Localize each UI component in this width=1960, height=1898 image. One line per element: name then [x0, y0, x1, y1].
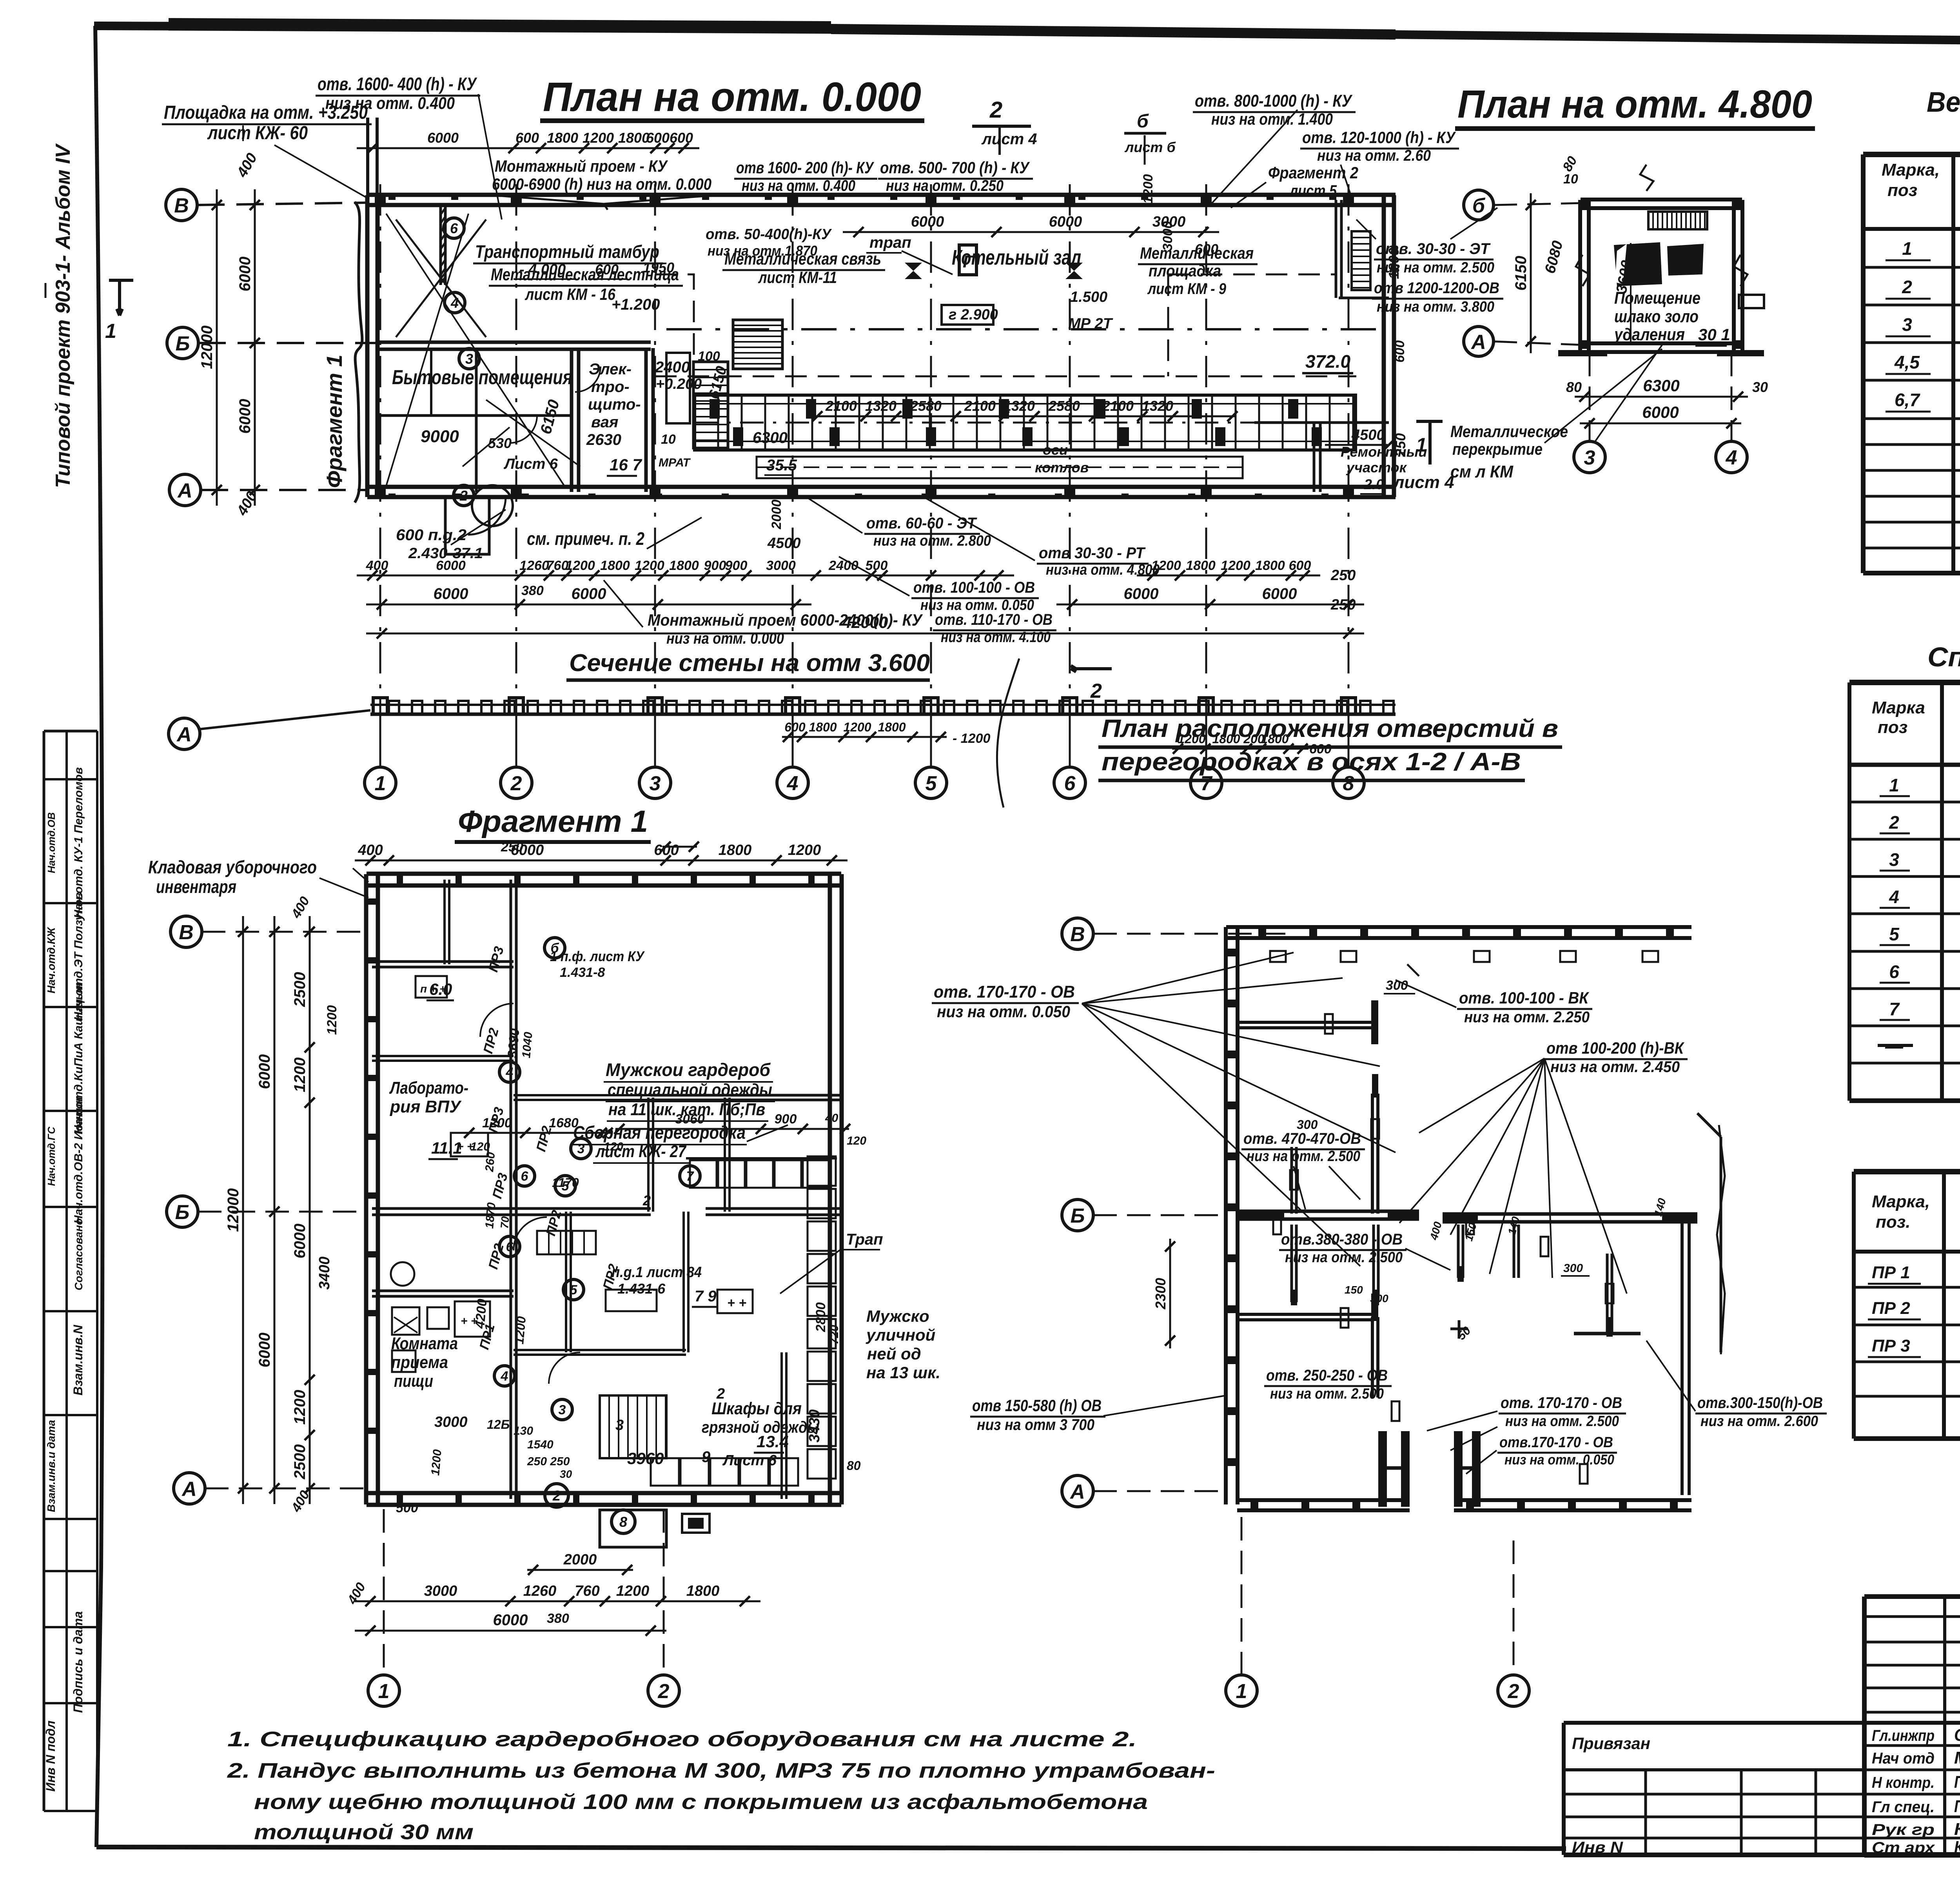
svg-text:1200: 1200: [325, 1005, 339, 1035]
openings plan break line right: [1717, 1125, 1725, 1354]
svg-text:5: 5: [570, 1283, 578, 1297]
svg-text:отв. 110-170 - ОВ: отв. 110-170 - ОВ: [935, 611, 1053, 628]
fragment bottom dim chains: [527, 1569, 633, 1571]
svg-text:1320: 1320: [865, 398, 897, 414]
svg-text:2500: 2500: [291, 1444, 309, 1480]
svg-text:600: 600: [784, 720, 806, 734]
svg-text:1.431-8: 1.431-8: [560, 965, 605, 980]
svg-text:2: 2: [989, 97, 1002, 123]
svg-text:4: 4: [1889, 887, 1899, 907]
svg-text:Нач.отд.КЖ: Нач.отд.КЖ: [45, 927, 57, 994]
axis circle A of wall section: [169, 718, 200, 749]
ladder right top: [1352, 231, 1370, 290]
bowtie link symbols: [905, 263, 922, 279]
svg-text:760: 760: [575, 1583, 599, 1599]
svg-text:1: 1: [378, 1680, 390, 1703]
svg-text:ней од: ней од: [867, 1345, 921, 1363]
svg-text:отв. 60-60 - ЭТ: отв. 60-60 - ЭТ: [866, 515, 977, 532]
svg-text:Типовой проект 903-1- Альбом: Типовой проект 903-1- Альбом IV: [52, 143, 74, 488]
wall panel joint marks top wall: [388, 194, 396, 200]
svg-text:удаления: удаления: [1613, 325, 1685, 344]
fragment axis target circles: [544, 938, 565, 958]
svg-text:1170: 1170: [552, 1176, 579, 1190]
svg-text:План на отм. 4.800: План на отм. 4.800: [1457, 82, 1812, 126]
right top fragment2 room: [1335, 200, 1338, 298]
svg-text:5: 5: [926, 772, 937, 795]
svg-text:поз.: поз.: [1876, 1212, 1910, 1232]
svg-text:1320: 1320: [1004, 398, 1035, 414]
svg-text:Б: Б: [175, 1201, 190, 1224]
svg-text:уличной: уличной: [866, 1326, 935, 1344]
svg-text:6000: 6000: [427, 130, 459, 146]
svg-text:рия ВПУ: рия ВПУ: [390, 1097, 462, 1116]
leader lines from bottom annotations: [808, 498, 862, 533]
svg-text:6: 6: [1064, 772, 1076, 795]
svg-text:Спецификация элементов запо: Спецификация элементов заполнения проемо…: [1927, 642, 1960, 672]
svg-text:2: 2: [642, 1192, 651, 1208]
svg-text:300: 300: [1370, 1292, 1388, 1305]
svg-text:Нач отд: Нач отд: [1872, 1750, 1935, 1767]
svg-text:лист КМ-11: лист КМ-11: [758, 268, 837, 287]
svg-text:План на отм. 0.000: План на отм. 0.000: [543, 74, 921, 120]
svg-text:низ на отм.1.870: низ на отм.1.870: [708, 243, 817, 259]
svg-text:г 2.900: г 2.900: [949, 307, 998, 323]
svg-text:900: 900: [725, 558, 748, 573]
svg-text:отв 1600- 200 (h)- КУ: отв 1600- 200 (h)- КУ: [736, 158, 875, 177]
svg-text:низ на отм 3 700: низ на отм 3 700: [977, 1416, 1094, 1433]
svg-text:1.500: 1.500: [1070, 289, 1107, 305]
svg-text:1 п.ф. лист КУ: 1 п.ф. лист КУ: [550, 948, 645, 964]
svg-text:4: 4: [787, 772, 799, 795]
svg-text:б: б: [1137, 111, 1149, 132]
svg-text:3: 3: [650, 772, 661, 795]
section strip small dim segments: [782, 736, 947, 738]
svg-text:Согласовано: Согласовано: [73, 1218, 85, 1290]
svg-text:400: 400: [358, 842, 383, 858]
openings plan axis circles: [1062, 918, 1093, 949]
svg-text:150: 150: [1345, 1284, 1363, 1296]
svg-text:специальной одежды: специальной одежды: [608, 1080, 772, 1100]
svg-text:12Б: 12Б: [487, 1417, 510, 1432]
stair strip 2: [693, 362, 728, 448]
svg-text:1800: 1800: [669, 558, 699, 573]
svg-text:ПР 1: ПР 1: [1872, 1263, 1910, 1282]
svg-text:Б: Б: [1071, 1205, 1085, 1227]
svg-text:720: 720: [828, 1325, 841, 1345]
svg-text:2800: 2800: [813, 1302, 828, 1332]
svg-text:приема: приема: [391, 1353, 448, 1372]
svg-text:пищи: пищи: [394, 1372, 433, 1391]
svg-text:6000: 6000: [1049, 214, 1082, 230]
svg-text:10: 10: [661, 432, 676, 447]
svg-text:3: 3: [1889, 849, 1899, 870]
svg-text:1200: 1200: [635, 558, 664, 573]
svg-text:6300: 6300: [1643, 376, 1679, 395]
svg-text:6000: 6000: [236, 399, 254, 434]
svg-text:1800: 1800: [809, 720, 837, 734]
title block left extension: [1564, 1721, 1864, 1725]
svg-text:низ на отм. 0.000: низ на отм. 0.000: [666, 630, 784, 647]
svg-text:Кузочкина: Кузочкина: [1954, 1838, 1960, 1857]
axis circles 1-8 below section: [379, 714, 381, 767]
svg-text:530: 530: [488, 435, 512, 451]
svg-text:ному щебню толщиной 100 мм: ному щебню толщиной 100 мм с покрытием и…: [254, 1790, 1148, 1814]
svg-text:низ на отм. 2.600: низ на отм. 2.600: [1700, 1413, 1818, 1430]
svg-text:Котельный зал: Котельный зал: [952, 246, 1081, 269]
svg-text:35.5: 35.5: [766, 457, 797, 474]
plan 4800 dim lines: [1530, 193, 1532, 353]
svg-text:на 13 шк.: на 13 шк.: [866, 1363, 940, 1382]
svg-text:500: 500: [866, 558, 888, 573]
svg-text:600: 600: [1392, 340, 1407, 363]
bottom dimension chains of main plan: [357, 575, 1014, 577]
wall panel joint marks bottom wall: [388, 494, 396, 499]
svg-text:ПР 2: ПР 2: [1872, 1299, 1910, 1318]
svg-text:низ на отм. 2.500: низ на отм. 2.500: [1285, 1249, 1403, 1266]
svg-text:отв 150-580 (h) ОВ: отв 150-580 (h) ОВ: [972, 1396, 1102, 1415]
svg-text:30: 30: [1752, 379, 1768, 395]
svg-text:1200: 1200: [482, 1116, 512, 1130]
svg-text:3000: 3000: [1160, 221, 1175, 251]
svg-text:500: 500: [396, 1501, 418, 1515]
svg-text:отв. 100-100 - ВК: отв. 100-100 - ВК: [1459, 989, 1590, 1007]
svg-text:2100: 2100: [825, 398, 857, 414]
svg-text:3060: 3060: [675, 1112, 705, 1127]
svg-text:лист КМ - 16: лист КМ - 16: [524, 285, 615, 303]
svg-text:260: 260: [483, 1152, 497, 1173]
svg-text:Нач.отд.ОВ-2 Ионкин: Нач.отд.ОВ-2 Ионкин: [72, 1097, 85, 1224]
svg-text:Мужскои гардероб: Мужскои гардероб: [606, 1060, 771, 1080]
svg-text:3400: 3400: [316, 1256, 333, 1290]
svg-text:16 7: 16 7: [610, 455, 642, 474]
svg-text:Инв N подл: Инв N подл: [44, 1720, 58, 1791]
openings plan stubs below B left room: [1290, 1225, 1293, 1302]
svg-text:250: 250: [1330, 567, 1356, 584]
svg-text:отв. 100-100 - ОВ: отв. 100-100 - ОВ: [913, 579, 1035, 596]
svg-text:В: В: [174, 194, 189, 217]
svg-text:котлов: котлов: [1035, 459, 1089, 475]
svg-text:70: 70: [498, 1216, 512, 1229]
svg-text:6000: 6000: [1642, 403, 1679, 421]
svg-text:низ на отм. 4.800: низ на отм. 4.800: [1046, 562, 1160, 578]
fragment lockers top right area: [690, 1160, 717, 1188]
axis vertical dash lines: [379, 184, 381, 768]
svg-text:600600: 600600: [646, 130, 693, 146]
r2900 boxed label: [942, 305, 993, 325]
svg-text:1200: 1200: [565, 558, 595, 573]
doors in partitions: [510, 416, 537, 443]
svg-text:3000: 3000: [434, 1414, 468, 1430]
svg-text:1. Спецификацию гардеробного: 1. Спецификацию гардеробного оборудовани…: [227, 1727, 1137, 1751]
svg-text:Площадка на отм. +3.250: Площадка на отм. +3.250: [164, 102, 368, 123]
svg-text:+1.200: +1.200: [612, 296, 660, 313]
svg-text:В: В: [1070, 923, 1085, 946]
svg-text:2.430-37.1: 2.430-37.1: [408, 545, 483, 562]
svg-text:А: А: [181, 1478, 197, 1501]
svg-text:низ на отм. 0.250: низ на отм. 0.250: [886, 177, 1004, 194]
svg-text:40: 40: [825, 1112, 838, 1125]
svg-text:МРАТ: МРАТ: [659, 456, 691, 469]
openings plan B-axis wall segments: [1237, 1210, 1419, 1213]
svg-text:Ст арх: Ст арх: [1872, 1839, 1935, 1856]
svg-text:3430: 3430: [806, 1409, 823, 1443]
svg-text:ПР 3: ПР 3: [1872, 1336, 1910, 1355]
interior partition vertical 2 electro room: [644, 348, 648, 492]
svg-text:12000: 12000: [198, 325, 216, 369]
svg-text:1540: 1540: [527, 1438, 554, 1451]
svg-text:1800: 1800: [1186, 558, 1216, 573]
plan 4800 axis circles: [1464, 190, 1494, 220]
svg-text:2: 2: [552, 1488, 561, 1504]
svg-text:300: 300: [1563, 1262, 1583, 1275]
svg-text:6000: 6000: [256, 1333, 273, 1368]
svg-text:380: 380: [547, 1611, 569, 1626]
tambour diagonal braces: [396, 220, 486, 337]
svg-text:лист б: лист б: [1124, 139, 1176, 155]
svg-text:отв. 30-30 - ЭТ: отв. 30-30 - ЭТ: [1376, 240, 1491, 258]
svg-text:11.1: 11.1: [431, 1139, 462, 1157]
boiler row band: [695, 395, 1356, 450]
svg-text:Погорельскии: Погорельскии: [1954, 1797, 1960, 1816]
svg-text:3960: 3960: [627, 1449, 664, 1468]
svg-text:низ на отм. 2.500: низ на отм. 2.500: [1377, 259, 1494, 276]
svg-text:80: 80: [847, 1459, 861, 1473]
svg-text:площадка: площадка: [1149, 261, 1221, 280]
svg-text:400: 400: [366, 558, 388, 573]
interior partition vertical 1: [570, 348, 573, 492]
svg-text:6000: 6000: [256, 1054, 273, 1089]
title block outer: [1864, 1594, 1960, 1599]
svg-text:1200: 1200: [1141, 174, 1156, 204]
svg-text:п.g.1 лист 84: п.g.1 лист 84: [612, 1264, 702, 1281]
svg-text:отв. 1600- 400 (h) - КУ: отв. 1600- 400 (h) - КУ: [318, 74, 477, 94]
svg-text:Транспортный тамбур: Транспортный тамбур: [475, 241, 659, 262]
duct dashed rect in hall: [757, 457, 1243, 478]
svg-text:Лист 6: Лист 6: [503, 456, 558, 472]
svg-text:1040: 1040: [520, 1031, 535, 1059]
svg-text:1800: 1800: [600, 558, 630, 573]
svg-text:900: 900: [704, 558, 726, 573]
fixtures in left rooms: [392, 1307, 419, 1335]
svg-text:Инв N: Инв N: [1572, 1839, 1623, 1856]
svg-text:10: 10: [1563, 172, 1578, 187]
svg-text:Монтажный проем 6000-2400(h)-: Монтажный проем 6000-2400(h)- КУ: [648, 611, 923, 629]
svg-text:Рук гр: Рук гр: [1872, 1821, 1935, 1838]
svg-text:Морунов: Морунов: [1954, 1748, 1960, 1767]
svg-text:низ на отм. 0.400: низ на отм. 0.400: [742, 177, 855, 194]
boiler dimension line: [813, 416, 1236, 417]
svg-text:9: 9: [702, 1448, 711, 1466]
right side remont area walls: [1313, 423, 1316, 492]
svg-text:7 9: 7 9: [695, 1288, 717, 1305]
svg-text:3: 3: [559, 1403, 566, 1417]
svg-text:1320: 1320: [1142, 398, 1173, 414]
svg-text:вая: вая: [591, 414, 618, 431]
svg-text:низ на отм. 2.250: низ на отм. 2.250: [1464, 1009, 1590, 1026]
svg-text:Б: Б: [176, 332, 190, 355]
svg-text:2100: 2100: [964, 398, 996, 414]
svg-text:- 1200: - 1200: [953, 731, 990, 746]
svg-text:Марка,: Марка,: [1882, 160, 1940, 180]
svg-text:2: 2: [510, 772, 522, 795]
fragment right top leaders: [353, 868, 368, 882]
svg-text:6: 6: [450, 220, 458, 236]
svg-text:Кладовая уборочного: Кладовая уборочного: [148, 857, 317, 877]
svg-text:трап: трап: [869, 234, 911, 251]
svg-text:Привязан: Привязан: [1572, 1734, 1650, 1753]
svg-text:1800: 1800: [618, 130, 650, 146]
svg-text:лист КМ - 9: лист КМ - 9: [1147, 280, 1226, 298]
svg-text:+ +: + +: [727, 1296, 746, 1310]
svg-text:Марка,: Марка,: [1872, 1192, 1930, 1211]
svg-text:380: 380: [521, 583, 544, 598]
svg-text:1200: 1200: [1221, 558, 1250, 573]
svg-text:6000: 6000: [434, 585, 468, 602]
svg-text:отв. 170-170 - ОВ: отв. 170-170 - ОВ: [1501, 1394, 1622, 1412]
svg-text:Шкафы для: Шкафы для: [711, 1399, 802, 1418]
svg-text:оси: оси: [1043, 442, 1068, 458]
column squares at axes: [375, 197, 386, 205]
svg-text:1800: 1800: [686, 1583, 720, 1599]
svg-text:Взам.инв.N: Взам.инв.N: [71, 1325, 85, 1395]
svg-text:4: 4: [450, 295, 459, 311]
svg-text:щито-: щито-: [588, 396, 641, 413]
stairs металлическая лестница: [733, 320, 782, 369]
electro room equipment: [666, 353, 690, 423]
svg-text:Н контр.: Н контр.: [1872, 1774, 1935, 1791]
vedomost proemov table: [1863, 152, 1960, 157]
openings plan top wall: [1226, 925, 1691, 929]
fragment axis circles: [171, 916, 202, 947]
interior axis target circles: [444, 218, 464, 238]
svg-text:2: 2: [1902, 277, 1912, 297]
svg-text:4,5: 4,5: [1894, 352, 1920, 372]
svg-text:низ на отм. 2.60: низ на отм. 2.60: [1317, 147, 1431, 164]
svg-text:250: 250: [1392, 433, 1408, 457]
svg-text:2000: 2000: [769, 499, 784, 530]
fragment interior walls: [510, 880, 512, 1212]
svg-text:МР 2Т: МР 2Т: [1068, 316, 1113, 332]
svg-text:Элек-: Элек-: [589, 361, 632, 378]
svg-text:6: 6: [1889, 962, 1899, 982]
svg-text:100: 100: [698, 349, 720, 364]
svg-text:1260: 1260: [519, 558, 549, 573]
svg-text:Гл.инжпр: Гл.инжпр: [1872, 1727, 1935, 1744]
page frame left edge: [95, 26, 103, 1847]
svg-text:1800: 1800: [878, 720, 906, 734]
svg-text:отв. 250-250 - ОВ: отв. 250-250 - ОВ: [1266, 1367, 1388, 1384]
svg-text:4: 4: [506, 1065, 514, 1080]
svg-text:отв 100-200 (h)-ВК: отв 100-200 (h)-ВК: [1546, 1039, 1685, 1057]
svg-text:30: 30: [560, 1468, 572, 1480]
svg-text:120: 120: [847, 1134, 866, 1147]
svg-text:80: 80: [1566, 379, 1582, 395]
svg-text:перекрытие: перекрытие: [1452, 440, 1543, 458]
svg-text:Марка: Марка: [1872, 698, 1925, 717]
svg-text:Нач.отд.ГС: Нач.отд.ГС: [45, 1126, 57, 1186]
svg-text:30 1: 30 1: [1698, 325, 1730, 344]
openings plan upper-left partition with tee: [1237, 1021, 1374, 1024]
svg-text:1950: 1950: [643, 259, 674, 276]
svg-text:4500: 4500: [1351, 427, 1385, 443]
svg-text:отв. 120-1000 (h) - КУ: отв. 120-1000 (h) - КУ: [1302, 128, 1456, 147]
svg-text:1.431-6: 1.431-6: [617, 1281, 666, 1297]
svg-text:6000: 6000: [1262, 585, 1297, 602]
svg-text:3000: 3000: [424, 1583, 457, 1599]
svg-text:отв. 800-1000 (h) - КУ: отв. 800-1000 (h) - КУ: [1195, 91, 1353, 111]
svg-text:Фрагмент 2: Фрагмент 2: [1268, 163, 1358, 182]
svg-text:2.0: 2.0: [1364, 476, 1384, 492]
bytovye entry porch: [445, 497, 489, 554]
page frame top edge: [94, 26, 1960, 46]
svg-text:лист 4: лист 4: [981, 131, 1037, 148]
dashed outline platform at +1.200 in hall: [655, 376, 1356, 377]
svg-text:Монтажный проем - КУ: Монтажный проем - КУ: [495, 157, 668, 175]
svg-text:Погорельский: Погорельский: [1954, 1773, 1960, 1792]
svg-text:2580: 2580: [1048, 398, 1080, 414]
svg-text:4500: 4500: [767, 535, 801, 552]
svg-text:Фрагмент 1: Фрагмент 1: [322, 355, 347, 488]
openings plan right partial wall: [1681, 1219, 1684, 1495]
svg-text:3: 3: [577, 1141, 585, 1156]
svg-text:Лист 6: Лист 6: [722, 1452, 777, 1469]
svg-text:Гл спец.: Гл спец.: [1872, 1798, 1935, 1816]
title block small grid upper left: [1864, 1615, 1960, 1618]
svg-text:300: 300: [1386, 978, 1408, 993]
fragment lockers row right wall: [808, 1156, 836, 1186]
svg-text:Лаборато-: Лаборато-: [389, 1078, 468, 1098]
svg-text:низ на отм. 3.800: низ на отм. 3.800: [1377, 299, 1494, 315]
42000 overall dim: [366, 633, 1364, 635]
svg-text:отв.300-150(h)-ОВ: отв.300-150(h)-ОВ: [1697, 1394, 1823, 1412]
svg-text:см л КМ: см л КМ: [1450, 462, 1514, 481]
svg-text:2630: 2630: [586, 431, 621, 448]
svg-text:1870: 1870: [483, 1202, 498, 1229]
svg-text:6000: 6000: [911, 214, 944, 230]
svg-text:1200: 1200: [512, 1316, 528, 1345]
svg-text:Сечение стены на отм 3.600: Сечение стены на отм 3.600: [569, 650, 930, 677]
svg-text:600: 600: [1195, 241, 1218, 257]
svg-text:Ремонтныи: Ремонтныи: [1341, 444, 1427, 460]
svg-text:План расположения отверстий в: План расположения отверстий в: [1102, 714, 1558, 742]
svg-text:1200: 1200: [583, 130, 614, 146]
svg-text:низ на отм. 2.500: низ на отм. 2.500: [1247, 1148, 1360, 1165]
top dimension chain far left: [357, 147, 699, 149]
svg-text:низ на отм. 2.500: низ на отм. 2.500: [1505, 1413, 1619, 1430]
specification peremychek table: [1854, 1169, 1960, 1174]
plan 4800 hatched duct on top wall: [1648, 212, 1707, 229]
svg-text:1800: 1800: [547, 130, 578, 146]
extra partitions bytovye: [475, 348, 478, 492]
svg-text:Комната: Комната: [391, 1334, 458, 1353]
svg-text:Мужско: Мужско: [866, 1307, 929, 1325]
opening symbols small marks: [1325, 1014, 1333, 1034]
svg-text:6000: 6000: [572, 585, 606, 602]
svg-text:600: 600: [515, 130, 539, 146]
svg-text:6000: 6000: [236, 257, 254, 292]
svg-text:250: 250: [1330, 597, 1356, 613]
fragment locker row bottom: [651, 1458, 679, 1486]
fragment interior dims: [465, 1132, 612, 1134]
svg-text:250 250: 250 250: [527, 1455, 570, 1468]
svg-text:2: 2: [1508, 1680, 1519, 1703]
svg-text:250: 250: [501, 840, 523, 855]
svg-text:1: 1: [375, 772, 386, 795]
svg-text:300: 300: [1297, 1118, 1318, 1132]
svg-text:1200: 1200: [843, 720, 871, 734]
svg-text:1: 1: [1416, 434, 1427, 456]
svg-text:2: 2: [1889, 812, 1899, 833]
